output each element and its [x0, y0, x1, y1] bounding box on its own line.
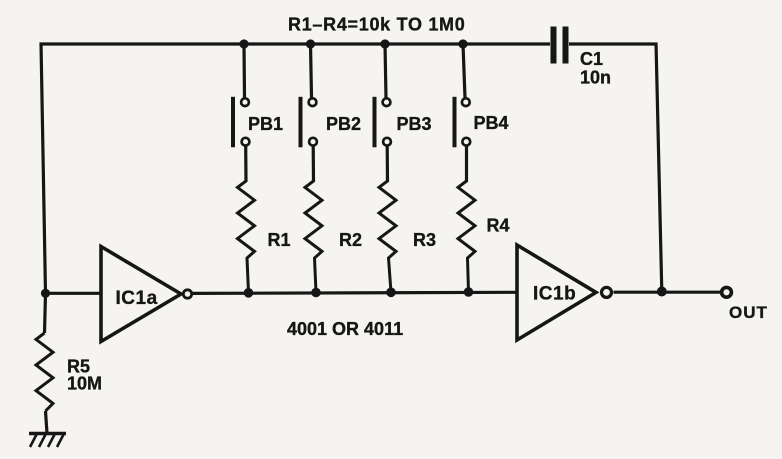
- svg-text:R4: R4: [487, 216, 510, 236]
- svg-text:R3: R3: [413, 230, 436, 250]
- resistor R3: [379, 146, 436, 297]
- pushbutton PB4: [455, 39, 509, 147]
- resistor R5: [36, 293, 102, 433]
- wire right vertical: [656, 43, 662, 292]
- pushbutton PB2: [301, 39, 362, 147]
- svg-text:PB4: PB4: [474, 113, 509, 133]
- node input junction: [41, 289, 50, 298]
- wire bottom rail (IC1a out to IC1b in): [193, 292, 519, 293]
- svg-text:R1: R1: [268, 230, 291, 250]
- svg-text:R1–R4=10k TO 1M0: R1–R4=10k TO 1M0: [288, 15, 465, 35]
- resistor R1: [238, 146, 291, 298]
- wire top rail right of C1: [569, 42, 658, 45]
- node output junction: [657, 287, 667, 297]
- op-amp inverter IC1b: [517, 245, 612, 340]
- svg-text:R2: R2: [339, 230, 362, 250]
- pushbutton PB3: [375, 39, 432, 147]
- svg-text:PB2: PB2: [326, 114, 361, 134]
- op-amp inverter IC1a: [101, 247, 192, 342]
- svg-text:IC1a: IC1a: [116, 288, 158, 309]
- svg-text:C1: C1: [580, 49, 603, 69]
- wire top rail left of C1: [40, 42, 551, 45]
- ground: [29, 434, 66, 448]
- wire left vertical: [41, 43, 46, 294]
- svg-text:4001 OR 4011: 4001 OR 4011: [287, 319, 403, 339]
- svg-text:PB3: PB3: [397, 114, 432, 134]
- wire IC1b output to OUT: [614, 291, 721, 294]
- resistor R4: [458, 146, 510, 297]
- capacitor C1: [554, 27, 612, 88]
- svg-text:PB1: PB1: [248, 114, 283, 134]
- wire IC1a input: [46, 292, 103, 295]
- svg-text:10M: 10M: [67, 374, 102, 394]
- node OUT terminal: [722, 287, 732, 297]
- svg-text:OUT: OUT: [729, 303, 768, 322]
- resistor R2: [305, 146, 362, 298]
- pushbutton PB1: [233, 39, 283, 147]
- svg-text:IC1b: IC1b: [533, 284, 576, 305]
- svg-text:10n: 10n: [580, 68, 611, 88]
